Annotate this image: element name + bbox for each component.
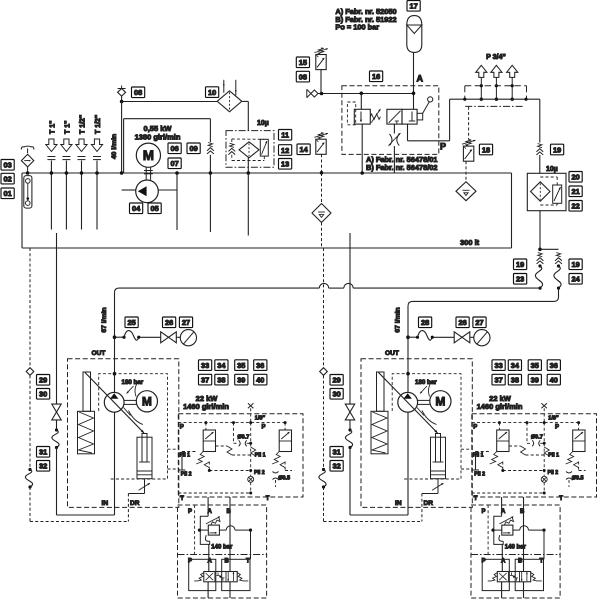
clogging indicator item 11 xyxy=(260,139,268,156)
svg-text:B: B xyxy=(520,509,525,515)
right pump unit pump unit enclosure xyxy=(361,359,472,508)
label 34 right pump unit xyxy=(508,360,521,371)
svg-text:32: 32 xyxy=(332,462,340,471)
right suction column mid xyxy=(349,420,351,430)
left pump unit B port tower plate xyxy=(222,559,250,590)
left pump unit IN supply elbow xyxy=(57,514,115,516)
svg-text:25: 25 xyxy=(127,318,135,327)
right pump unit IN line below pump xyxy=(407,412,409,515)
svg-text:29: 29 xyxy=(332,376,340,385)
hose item 24 xyxy=(557,264,560,267)
right pump unit pilot web dashed xyxy=(472,423,586,487)
label 04 xyxy=(130,203,143,214)
left pump unit pump unit enclosure xyxy=(68,359,179,508)
supply line to left pump unit with hops xyxy=(115,283,541,292)
pilot connections inside filter group xyxy=(232,139,264,161)
node junction reducer riser xyxy=(360,92,364,96)
node manifold to filter line xyxy=(525,98,527,100)
check valve item 19 left branch xyxy=(537,253,544,264)
left pump unit pump cartridge inner box xyxy=(99,374,168,479)
svg-text:P: P xyxy=(440,142,446,152)
right pump unit drive shaft xyxy=(418,400,430,404)
left pump unit DR dashed line xyxy=(127,494,129,522)
svg-text:15: 15 xyxy=(299,58,307,67)
svg-text:300 lt: 300 lt xyxy=(460,238,480,247)
wire pump suction drop xyxy=(121,102,123,174)
pressure filter group box 20-22 xyxy=(527,173,566,210)
tank return port T 1" with down arrow and dip pipe xyxy=(46,121,57,230)
svg-text:19: 19 xyxy=(553,145,561,154)
svg-text:40 l/min: 40 l/min xyxy=(111,134,118,159)
right pump unit variable displacement arrow xyxy=(379,373,438,434)
air breather filter item 03 xyxy=(21,146,34,175)
label 37 right pump unit xyxy=(492,374,505,385)
right pump unit IN supply elbow xyxy=(350,514,408,516)
node reducer drain at tank lid xyxy=(360,171,364,175)
left pump unit hose item 25 xyxy=(122,336,125,339)
left pump unit compensator marks xyxy=(124,381,144,425)
left pump unit block mid rail dash-dot xyxy=(178,554,267,556)
svg-text:Ø0.5: Ø0.5 xyxy=(278,476,290,482)
label 20 xyxy=(569,172,582,183)
right pump unit wire hose to valve 26 xyxy=(434,336,455,338)
svg-text:31: 31 xyxy=(39,448,47,457)
left suction feed solid column xyxy=(56,233,58,404)
right pump unit compensator marks xyxy=(417,381,437,425)
node supply split xyxy=(538,248,542,252)
svg-text:M: M xyxy=(143,148,154,163)
svg-text:11: 11 xyxy=(281,131,289,140)
left pump unit pressure gauge item 27 xyxy=(180,330,196,346)
right pump unit suction filter cartridge xyxy=(371,372,388,454)
right pump unit relief valve 140 bar xyxy=(499,516,513,535)
valve block 16 dashed enclosure xyxy=(342,86,439,155)
left pump unit P line dashed vertical xyxy=(194,505,196,555)
label 35 left pump unit xyxy=(235,360,248,371)
svg-text:Pil 2: Pil 2 xyxy=(254,470,265,476)
svg-text:Pil 1: Pil 1 xyxy=(473,452,484,458)
right pump unit test plug X xyxy=(541,403,547,422)
accumulator data text xyxy=(335,7,396,31)
label 08 lower xyxy=(296,71,309,82)
svg-text:T 1/2": T 1/2" xyxy=(79,115,86,134)
svg-text:19: 19 xyxy=(516,260,524,269)
wire filter to split node xyxy=(539,211,541,250)
svg-text:IN: IN xyxy=(395,500,402,507)
oil level gauge items 01-02 xyxy=(24,176,32,209)
wire reducer to pilot line xyxy=(360,93,362,109)
label 19 left branch xyxy=(514,259,527,270)
right drain feed dashed column xyxy=(320,248,328,470)
accumulator item 17 xyxy=(407,16,422,53)
svg-text:26: 26 xyxy=(165,318,173,327)
right hose on drain column items 31-32 xyxy=(322,468,325,471)
label 19 top xyxy=(551,144,564,155)
svg-text:A: A xyxy=(417,74,424,84)
right pump unit P pilot rail dashed xyxy=(472,421,580,424)
left pump unit pilot manifold dashed box xyxy=(178,414,303,497)
suction line below strainer dashed xyxy=(321,223,323,249)
label 12 xyxy=(279,145,292,156)
left pump unit relief plumbing loop xyxy=(198,516,252,559)
left pump unit A port tower plate xyxy=(189,559,216,590)
right pump unit cylinder drain with adjust arrow xyxy=(422,479,444,494)
label 39 left pump unit xyxy=(235,374,248,385)
svg-text:M: M xyxy=(435,395,445,409)
svg-text:08: 08 xyxy=(299,72,307,81)
label 38 left pump unit xyxy=(215,374,228,385)
svg-text:10µ: 10µ xyxy=(546,166,558,173)
right pump unit pressure gauge item 27 xyxy=(474,330,490,346)
svg-text:T: T xyxy=(474,496,478,502)
label 11 xyxy=(279,130,292,141)
right pump unit gauge shut-off valve item 26 xyxy=(454,332,470,343)
wire accumulator to valve 16 port A xyxy=(413,52,415,109)
check valve item 09 on frame line xyxy=(208,143,212,147)
right hose on suction column xyxy=(348,428,351,431)
wire dip pipe below check 09 xyxy=(209,173,211,232)
right pump unit A port tower plate xyxy=(482,559,509,590)
svg-text:14: 14 xyxy=(299,145,308,154)
right pump unit orifice 0.5 xyxy=(566,472,572,480)
svg-text:33: 33 xyxy=(201,361,209,370)
right pump unit orifice 0.7 xyxy=(532,440,540,446)
svg-text:1/8”: 1/8” xyxy=(255,416,266,422)
right pump unit DR dashed line xyxy=(421,494,423,522)
left pump unit B line vertical xyxy=(229,497,231,572)
check valve item 19 right branch xyxy=(555,253,562,264)
node junction valve15 drop xyxy=(320,92,324,96)
right pump unit pump box to manifold pilot links xyxy=(461,449,472,469)
svg-text:40: 40 xyxy=(550,375,558,384)
svg-text:T: T xyxy=(559,496,563,502)
right pump unit variable pump xyxy=(398,392,418,412)
svg-text:38: 38 xyxy=(217,375,225,384)
left hose on drain column items 31-32 xyxy=(28,468,31,471)
svg-text:180 bar: 180 bar xyxy=(122,379,144,386)
pressure filter element item 21 xyxy=(531,182,550,201)
supply line to right pump unit xyxy=(408,297,559,306)
left pump unit gauge shut-off valve item 26 xyxy=(161,332,177,343)
svg-text:T 1/2": T 1/2" xyxy=(95,115,102,134)
left pump unit bottom valve block dashed box xyxy=(178,505,267,598)
right pump unit A line vertical xyxy=(501,497,504,572)
wire check19 to pressure filter xyxy=(539,155,541,173)
svg-text:03: 03 xyxy=(3,161,11,170)
pump items 04-05 xyxy=(136,180,159,203)
manual coupling item 08 on pilot line xyxy=(307,89,318,97)
wire return filter drop lower xyxy=(247,158,249,173)
svg-text:24: 24 xyxy=(571,275,580,284)
left pump unit wire valve to gauge xyxy=(176,336,180,338)
svg-text:140 bar: 140 bar xyxy=(505,544,527,550)
suction strainer in tank xyxy=(312,204,331,223)
svg-text:Pil 2: Pil 2 xyxy=(181,471,192,477)
left pump unit wire cartridgeR to P rail xyxy=(284,423,286,430)
svg-text:IN: IN xyxy=(102,500,109,507)
left drain feed dashed column xyxy=(26,248,34,470)
wire valve08 down to junction xyxy=(121,96,123,101)
wire right branch drop xyxy=(558,288,560,297)
label 15 xyxy=(296,57,309,68)
svg-text:39: 39 xyxy=(237,375,245,384)
label 27 left pump unit xyxy=(179,317,192,328)
left hose on suction column xyxy=(55,428,58,431)
svg-text:P: P xyxy=(188,509,192,515)
wire valve14 drain dashed xyxy=(321,154,323,173)
svg-text:33: 33 xyxy=(494,361,502,370)
left pump unit pilot web dashed xyxy=(179,423,293,487)
label 27 right pump unit xyxy=(473,317,486,328)
svg-text:06: 06 xyxy=(170,144,178,153)
svg-text:18: 18 xyxy=(482,145,490,154)
left pump unit compensator cylinder xyxy=(137,434,152,479)
right pump unit wire cartridgeL to P rail xyxy=(498,423,500,430)
left pump unit DR drain elbow dashed xyxy=(30,521,128,523)
clogging indicator item 20 xyxy=(553,185,562,203)
right pump unit wire valve to gauge xyxy=(470,336,474,338)
svg-text:67 l/min: 67 l/min xyxy=(101,307,108,332)
svg-text:30: 30 xyxy=(39,390,47,399)
left pump unit variable displacement arrow xyxy=(85,373,144,434)
pressure manifold three outlets with up arrows xyxy=(476,65,518,101)
svg-text:04: 04 xyxy=(132,204,141,213)
svg-text:180 bar: 180 bar xyxy=(415,379,437,386)
label 36 left pump unit xyxy=(254,360,267,371)
svg-text:Ø0.5: Ø0.5 xyxy=(572,476,584,482)
left pump unit cylinder drain with adjust arrow xyxy=(128,479,150,494)
svg-text:31: 31 xyxy=(332,448,340,457)
relief valve item 18 xyxy=(462,140,476,162)
node junction at valve08 line xyxy=(120,100,124,104)
svg-text:07: 07 xyxy=(170,159,178,168)
svg-text:P: P xyxy=(482,509,486,515)
svg-text:36: 36 xyxy=(256,361,264,370)
right pump unit T rail dashed xyxy=(472,482,546,494)
svg-text:21: 21 xyxy=(571,187,579,196)
left pump unit relief valve 140 bar xyxy=(206,516,220,535)
wire valve08 junction to filter 10 xyxy=(122,101,217,103)
left pump unit wire gauge branch xyxy=(115,336,125,338)
wire filter10 to return filter xyxy=(242,100,248,102)
label 31 left xyxy=(37,447,50,458)
label 33 right pump unit xyxy=(492,360,505,371)
label 35 right pump unit xyxy=(528,360,541,371)
return filter element item 12 xyxy=(239,142,259,158)
svg-text:1460 giri/min: 1460 giri/min xyxy=(477,402,523,411)
wire return filter drop upper xyxy=(247,101,249,130)
left pump unit wire B through valve to bottom xyxy=(229,582,231,598)
svg-text:17: 17 xyxy=(409,2,417,11)
right drain column lower dashed xyxy=(323,487,325,522)
svg-text:05: 05 xyxy=(150,204,158,213)
svg-text:39: 39 xyxy=(531,375,539,384)
motor group frame xyxy=(124,119,211,173)
left pump unit node OUT at inner box xyxy=(113,372,117,376)
svg-text:1/8”: 1/8” xyxy=(548,416,559,422)
left shut-off valve items 29-30 xyxy=(52,404,61,420)
svg-text:Pil 1: Pil 1 xyxy=(255,452,266,458)
left pump unit wire cartridgeL to P rail xyxy=(205,423,207,430)
wire pump discharge dip pipe xyxy=(176,173,178,230)
tank 300 lt reservoir outline xyxy=(22,173,512,248)
left pump unit P pilot rail dashed xyxy=(178,421,286,424)
svg-text:27: 27 xyxy=(182,318,190,327)
hose item 23 xyxy=(538,264,541,267)
svg-text:10µ: 10µ xyxy=(257,120,269,127)
label 36 right pump unit xyxy=(547,360,560,371)
svg-text:DR: DR xyxy=(424,500,434,507)
svg-text:B) Fabr. nr. 56478/02: B) Fabr. nr. 56478/02 xyxy=(366,163,437,172)
left pump unit pilot cartridge valve left xyxy=(196,430,215,464)
2-position lever valve in block 16 xyxy=(387,97,433,124)
label 18 xyxy=(479,144,492,155)
svg-text:T: T xyxy=(180,496,184,502)
tank return port T 1/2" with down arrow and dip pipe xyxy=(76,115,87,230)
label 33 left pump unit xyxy=(199,360,212,371)
label 19 right branch xyxy=(569,259,582,270)
wire pilot line to port A xyxy=(318,93,414,95)
wire split to right branch xyxy=(540,248,559,250)
left pump unit directional control valve 4/3 xyxy=(194,572,248,582)
svg-text:36: 36 xyxy=(550,361,558,370)
label 32 left xyxy=(37,461,50,472)
wire pump discharge horizontal xyxy=(158,189,177,191)
tank return port T 1/2" with down arrow and dip pipe xyxy=(91,115,102,230)
filler filter item 10 xyxy=(217,80,242,112)
svg-text:12: 12 xyxy=(281,146,289,155)
right pump unit node OUT at inner box xyxy=(406,372,410,376)
left pump unit OUT riser into pump xyxy=(114,374,116,393)
left pump unit drive shaft xyxy=(124,400,136,404)
node discharge pipe at tank lid xyxy=(175,171,179,175)
svg-text:T 1": T 1" xyxy=(64,121,71,134)
right pump unit OUT riser from supply line xyxy=(407,306,409,374)
left pump unit wire hose to valve 26 xyxy=(140,336,161,338)
right pump unit pilot manifold dashed box xyxy=(472,414,597,497)
svg-text:35: 35 xyxy=(237,361,245,370)
label 29 left xyxy=(37,375,50,386)
svg-text:37: 37 xyxy=(201,375,209,384)
right suction column lower xyxy=(349,448,351,516)
right pump unit pilot cartridge valve left xyxy=(490,430,509,464)
wire valve15 to pilot line xyxy=(320,70,322,94)
label 31 right xyxy=(330,447,343,458)
adjustable throttle under block 16 xyxy=(389,124,401,173)
svg-text:28: 28 xyxy=(421,318,429,327)
svg-text:20: 20 xyxy=(571,173,579,182)
label 30 right xyxy=(330,389,343,400)
label 29 right xyxy=(330,375,343,386)
svg-text:M: M xyxy=(142,395,152,409)
svg-text:1460 giri/min: 1460 giri/min xyxy=(183,402,229,411)
svg-text:Ø0.7: Ø0.7 xyxy=(531,435,543,441)
label 14 xyxy=(297,144,310,155)
svg-text:02: 02 xyxy=(3,174,11,183)
label 06 xyxy=(168,143,181,154)
left suction column lower xyxy=(56,448,58,516)
svg-text:10: 10 xyxy=(208,88,216,97)
wire pump suction horizontal xyxy=(122,189,136,191)
label 37 left pump unit xyxy=(199,374,212,385)
svg-text:01: 01 xyxy=(3,189,11,198)
label 03 xyxy=(1,160,14,171)
left suction column mid xyxy=(56,420,58,430)
relief valve item 15 xyxy=(314,48,328,70)
left pump unit node gauge branch xyxy=(113,335,117,339)
left pump unit OUT riser from supply line xyxy=(114,293,116,374)
svg-text:P: P xyxy=(555,425,559,431)
right pump unit OUT riser into pump xyxy=(407,374,409,393)
svg-text:Pil 2: Pil 2 xyxy=(474,471,485,477)
left pump unit IN line below pump xyxy=(114,412,116,515)
pilot connections in pressure filter group xyxy=(540,177,557,205)
right pump unit wire cartridgeR to P rail xyxy=(578,423,580,430)
right pump unit B port tower plate xyxy=(515,559,543,590)
left pump unit A line vertical xyxy=(207,497,210,572)
svg-text:140 bar: 140 bar xyxy=(211,544,233,550)
svg-text:34: 34 xyxy=(511,361,520,370)
svg-text:Pil 2: Pil 2 xyxy=(548,470,559,476)
label 09 xyxy=(187,143,200,154)
node suction line crosses tank lid xyxy=(120,171,124,175)
svg-text:67 l/min: 67 l/min xyxy=(395,307,402,332)
right pump unit bottom valve block dashed box xyxy=(471,505,560,598)
svg-text:B: B xyxy=(227,509,232,515)
valve item 08 on pump suction vent line xyxy=(118,86,126,97)
label 23 xyxy=(514,274,527,285)
label 39 right pump unit xyxy=(528,374,541,385)
label 16 xyxy=(370,71,383,82)
bypass check valve in filter group xyxy=(228,143,235,154)
label 21 xyxy=(569,186,582,197)
right pump unit node gauge branch xyxy=(406,335,410,339)
left pump unit electric motor M 22kW xyxy=(136,391,157,412)
suction line in tank dashed xyxy=(321,173,323,204)
svg-text:P: P xyxy=(473,425,477,431)
pilot line manifold to valve18 xyxy=(468,107,470,140)
label 25 left pump unit xyxy=(125,317,138,328)
left pump unit T rail dashed xyxy=(178,482,252,494)
manifold supply rail xyxy=(450,98,540,101)
label 13 xyxy=(279,159,292,170)
wire return filter dip pipe xyxy=(247,173,249,236)
svg-text:30: 30 xyxy=(332,390,340,399)
node return filter at tank lid xyxy=(247,171,251,175)
block 16 part number text xyxy=(366,155,437,172)
left pump unit pump box to manifold pilot links xyxy=(168,449,179,469)
right pump unit P line dashed vertical xyxy=(487,505,489,555)
right pump unit wire A through valve to bottom xyxy=(501,582,503,598)
svg-text:P: P xyxy=(262,425,266,431)
svg-text:27: 27 xyxy=(475,318,483,327)
manifold dashed body xyxy=(465,86,527,107)
left pump unit orifice 0.5 xyxy=(273,472,279,480)
svg-text:1380 giri/min: 1380 giri/min xyxy=(135,133,181,142)
electric motor M item 06-07 xyxy=(136,143,160,167)
valve16 P port line xyxy=(408,99,450,141)
svg-text:34: 34 xyxy=(217,361,226,370)
svg-text:37: 37 xyxy=(494,375,502,384)
svg-text:16: 16 xyxy=(372,72,380,81)
label 17 xyxy=(407,1,420,12)
right suction feed solid column xyxy=(349,233,351,404)
svg-text:T 1": T 1" xyxy=(49,121,56,134)
left drain column lower dashed xyxy=(29,487,31,522)
left pump unit variable pump xyxy=(104,392,124,412)
left pump unit wire A through valve to bottom xyxy=(207,582,209,598)
label 24 xyxy=(569,274,582,285)
